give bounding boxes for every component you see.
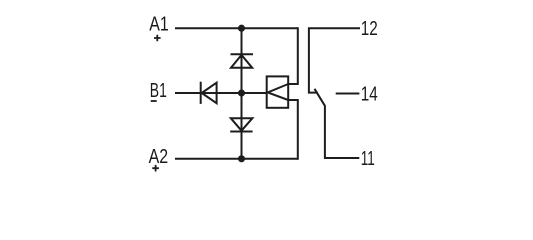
wire A2 horizontal [175, 158, 298, 160]
junction dot A1 [238, 25, 245, 32]
wire B1 horizontal [175, 92, 267, 94]
svg-text:B1: B1 [150, 80, 167, 102]
diode D3 triangle [202, 83, 217, 104]
diode D1 triangle [231, 55, 252, 68]
junction dot A2 [238, 155, 245, 162]
svg-text:11: 11 [361, 148, 375, 170]
wire A1 corner down to coil top pin [288, 27, 298, 84]
wire terminal 14 stub [336, 93, 360, 95]
junction dot B1 [238, 89, 245, 96]
relay coil K1 triangle [268, 84, 289, 100]
svg-text:A1: A1 [149, 14, 169, 36]
relay coil K1 rectangle [267, 76, 289, 107]
minus sign under B1 [151, 100, 157, 102]
wire A2 corner up to coil bottom pin [288, 100, 298, 160]
diode D3 cathode bar [200, 82, 202, 104]
contact lever and wire to terminal 11 [315, 89, 360, 158]
diode D1 cathode bar [231, 53, 254, 55]
wire A1 horizontal [175, 27, 298, 29]
wire junction column vertical [241, 28, 243, 159]
plus sign under A1 [154, 35, 161, 42]
diode D2 triangle [231, 118, 253, 131]
plus sign under A2 [152, 165, 159, 172]
wire terminal 12 with fixed contact foot [309, 28, 360, 92]
svg-text:12: 12 [361, 18, 378, 40]
svg-text:14: 14 [361, 84, 378, 106]
diode D2 cathode bar [230, 131, 252, 133]
svg-text:A2: A2 [149, 146, 169, 168]
